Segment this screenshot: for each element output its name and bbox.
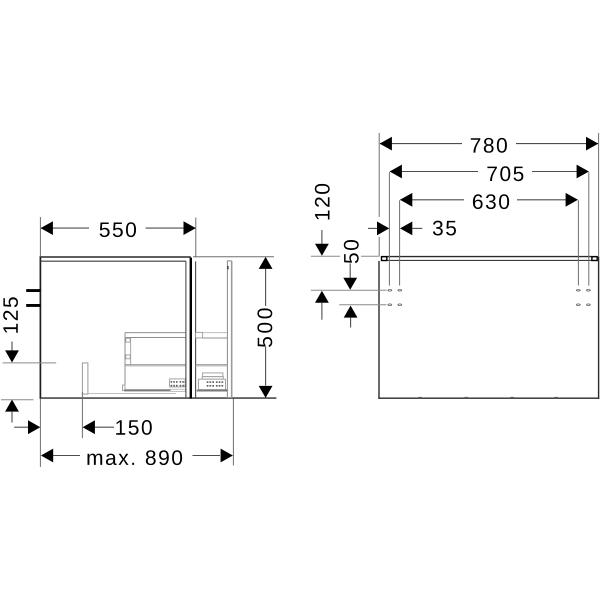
mounting hole row1 left b (398, 289, 403, 292)
hole row2 ref line (339, 304, 386, 306)
bottom foot nub 3 (511, 397, 514, 398)
dimension 550 line left part (41, 227, 89, 229)
open slide perforated block (198, 379, 225, 389)
dimension 500 text (257, 308, 272, 347)
open drawer front outer line (231, 261, 233, 398)
front body bottom edge (378, 397, 599, 399)
left slide bottom rail light part (170, 389, 185, 391)
mounting hole row2 left b (398, 303, 403, 306)
dimension 35 left outside arrow (377, 222, 389, 236)
dimension 120 lower stem (321, 303, 323, 320)
cabinet bottom edge (40, 397, 277, 399)
dimension 500 line lower (265, 347, 267, 386)
drain base light line (88, 393, 176, 395)
dimension max890 right arrow (221, 449, 233, 463)
dimension 780 line left (380, 143, 462, 145)
dimension 630 left arrow (400, 193, 412, 207)
dimension 125 ref line lower (1, 399, 34, 401)
mounting hole right inner column line (577, 200, 579, 285)
hole row1 ref line (311, 289, 387, 291)
countertop ref line left part (311, 255, 340, 257)
dimension 500 down arrow (259, 386, 273, 398)
dimension 550 right arrow (184, 221, 196, 235)
left slide perforated block (170, 379, 186, 387)
drawer top rail line 1 (125, 332, 185, 334)
left slide bottom hook (123, 385, 125, 391)
open drawer front panel (227, 261, 231, 398)
dimension 120 down arrow (315, 244, 329, 256)
dimension 35 right outside arrow (400, 222, 412, 236)
dimension 150 right extension (81, 392, 83, 438)
console top line (381, 256, 597, 258)
dimension 630 line right (517, 199, 578, 201)
dimension 780 left arrow (380, 137, 392, 151)
dimension 150 left outside arrow stem (14, 426, 28, 428)
dimension 705 line left (390, 171, 478, 173)
dimension max890 line right (193, 455, 221, 457)
dimension 125 upper stem (11, 342, 13, 351)
open slide bottom bar (197, 390, 227, 392)
front body right edge (598, 257, 600, 399)
open drawer bottom line 1 (196, 364, 228, 366)
dimension 705 left arrow (390, 165, 402, 179)
dimension 120 text (315, 184, 330, 220)
left slide bottom rail bar (124, 389, 170, 391)
dimension 125 down arrow (5, 350, 19, 362)
dimension max890 left extension (39, 399, 41, 467)
cabinet top line outer (40, 256, 191, 258)
dimension 550 left arrow (41, 221, 53, 235)
wall bracket tick lower (26, 304, 40, 307)
dimension 550 right extension (195, 218, 197, 258)
dimension 125 up arrow (5, 400, 19, 412)
mounting hole row2 left a (388, 303, 393, 306)
dimension 150 text (116, 420, 152, 435)
mounting hole row1 left a (388, 289, 393, 292)
countertop ref line right part (361, 255, 379, 257)
dimension 630 right arrow (566, 193, 578, 207)
bottom foot nub 2 (465, 397, 468, 398)
dimension 50 up arrow (344, 306, 358, 318)
mounting hole row2 right a (576, 303, 581, 306)
open drawer top rail line 1 (203, 332, 228, 334)
dimension 35 text (433, 221, 456, 236)
dimension 550 left extension (39, 217, 41, 256)
dimension 50 down arrow (343, 278, 357, 290)
console right end cap (592, 257, 597, 261)
dimension 150 right arrow (83, 420, 95, 434)
open drawer top rail line 2 (203, 337, 228, 339)
mounting hole right outer column line (588, 172, 590, 286)
mounting hole row1 right a (576, 289, 581, 292)
dimension 150 stem (95, 426, 114, 428)
drawer top rail line 2 (126, 337, 186, 339)
dimension 705 text (487, 166, 523, 181)
left slide perforations row1 (171, 381, 186, 386)
dimension 780 text (471, 138, 507, 153)
carcass front edge line (185, 261, 187, 398)
bottom foot nub 4 (555, 397, 558, 398)
open drawer top box (196, 332, 203, 338)
dimension 630 text (473, 194, 509, 209)
drawer front inner face line (195, 261, 197, 398)
dimension max890 left arrow (41, 449, 53, 463)
dimension 35 right outside stem (412, 227, 422, 229)
open slide bottom bar end wedge (225, 390, 227, 392)
dimension 35 left outside stem (368, 227, 380, 229)
dimension 780 left extension (378, 133, 380, 217)
dimension max890 line left (53, 455, 80, 457)
dimension 500 up arrow (259, 257, 273, 269)
open drawer bottom line 2 (196, 365, 228, 367)
mounting hole left outer column line (388, 172, 390, 286)
open slide mid rect (202, 377, 223, 380)
dimension 120 upper stem (321, 230, 323, 244)
dimension 500 top extension (193, 256, 274, 258)
dimension 705 line right (532, 171, 589, 173)
cabinet left edge (39, 256, 41, 398)
dimension 125 text (3, 297, 18, 333)
drawer bottom line 1 left (126, 364, 186, 366)
front body left edge (378, 261, 380, 399)
mounting hole left inner column line (399, 200, 401, 285)
console bottom line (387, 259, 592, 261)
dimension 705 right arrow (577, 165, 589, 179)
dimension max890 text (88, 450, 183, 465)
dimension 50 lower stem (350, 318, 352, 328)
open slide perforations (207, 381, 224, 386)
dimension 150 left outside arrow (28, 420, 40, 434)
dimension 780 right arrow (586, 137, 598, 151)
dimension 550 line right part (146, 227, 196, 229)
dimension 120 up arrow (315, 291, 329, 303)
open drawer front tick (227, 266, 229, 269)
dimension 50 text (344, 240, 359, 263)
dimension 550 text (100, 222, 136, 237)
drain clearance rectangle (82, 363, 88, 394)
mounting hole row2 right b (586, 303, 591, 306)
drawer back clip lower (126, 355, 130, 359)
dimension 125 ref line upper (3, 362, 57, 364)
dimension 50 upper stem (349, 264, 351, 279)
dimension 630 line left (400, 199, 464, 201)
console left end cap (382, 257, 387, 261)
open slide bridge rect (203, 373, 223, 377)
wall bracket tick upper (26, 289, 40, 292)
mounting hole row1 right b (586, 289, 591, 292)
drawer bottom line 2 left (126, 365, 186, 367)
bottom foot nub 1 (419, 397, 422, 398)
dimension 500 line upper (265, 269, 267, 306)
dimension 125 lower stem (11, 411, 13, 422)
cabinet top line inner (40, 260, 186, 262)
drawer back clip upper (126, 338, 130, 342)
drawer back panel (124, 333, 126, 385)
dimension 780 line right (516, 143, 598, 145)
dimension 780 right extension (598, 133, 600, 256)
dimension max890 right extension (232, 399, 234, 466)
drawer front panel (thick) (190, 258, 192, 399)
